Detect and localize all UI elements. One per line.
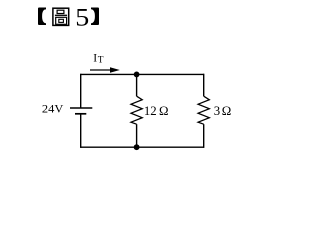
resistor R2 3 ohm zigzag	[198, 96, 209, 124]
battery V1 short plate	[75, 113, 86, 115]
wire right upper stub	[203, 74, 205, 97]
figure title character 圖	[53, 8, 69, 25]
battery V1 long plate	[70, 107, 92, 109]
svg-text:Ω: Ω	[222, 104, 232, 118]
figure title bracket right 】	[91, 8, 99, 26]
wire left upper (top wire to battery)	[80, 74, 82, 108]
svg-text:5: 5	[75, 5, 89, 32]
figure title bracket left 【	[38, 8, 46, 26]
arrow IT	[90, 69, 112, 71]
svg-text:T: T	[98, 56, 104, 66]
svg-text:3: 3	[214, 104, 220, 118]
node top junction dot	[134, 72, 140, 78]
wire right lower stub	[203, 124, 205, 148]
wire top	[81, 73, 204, 75]
wire middle lower stub	[136, 124, 138, 147]
wire bottom	[81, 146, 204, 148]
svg-text:12: 12	[144, 104, 157, 118]
svg-text:I: I	[93, 51, 97, 64]
svg-text:Ω: Ω	[159, 104, 169, 118]
svg-text:24V: 24V	[42, 101, 64, 115]
node bottom junction dot	[134, 144, 140, 150]
resistor R1 12 ohm zigzag	[131, 96, 142, 124]
wire middle upper stub	[136, 74, 138, 96]
wire left lower (battery to bottom wire)	[80, 114, 82, 148]
